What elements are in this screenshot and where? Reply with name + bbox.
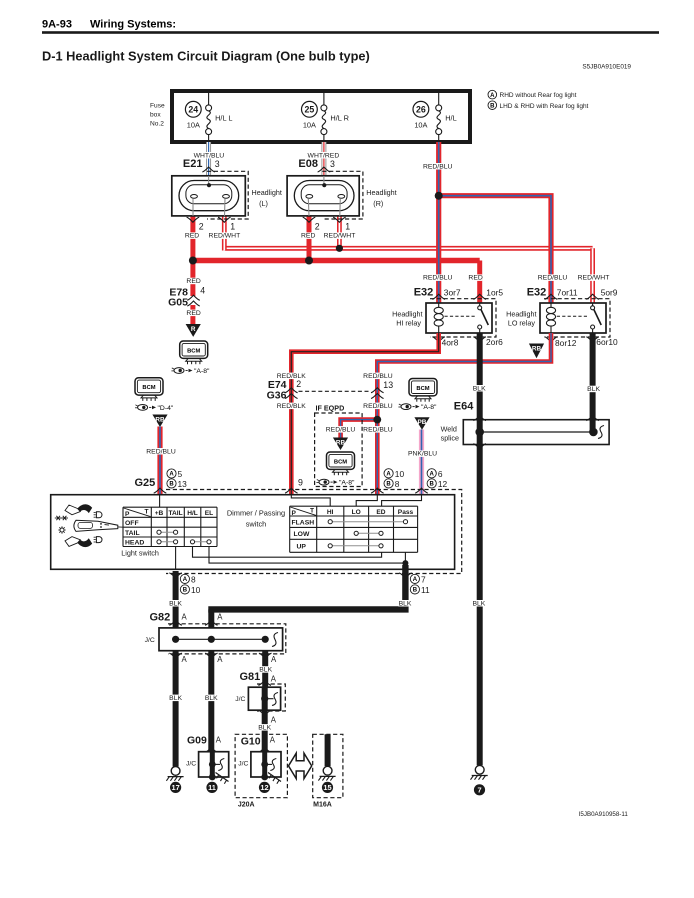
wire BLK G82 to G09: [208, 651, 214, 752]
switch entry chevron pin A6: [415, 488, 428, 493]
destination arrow PB: [414, 417, 429, 430]
M16A dashed box: [313, 734, 343, 797]
E78/G05 inline chevrons: [187, 295, 200, 306]
label RED/BLU above E74 pin13: [363, 373, 393, 380]
wire PNK/BLU from PB arrow to switch: [419, 430, 424, 495]
svg-text:7: 7: [477, 786, 481, 795]
G25 pin A7: [410, 574, 426, 584]
wire BLK right switch output to G82 bus: [208, 565, 405, 609]
E64 splice junction right: [589, 428, 598, 437]
label BLK G81 to G10: [258, 724, 272, 731]
HI relay switch: [478, 303, 489, 333]
svg-text:B: B: [430, 482, 435, 488]
junction RED/BLU branch: [373, 416, 381, 424]
svg-text:2: 2: [199, 222, 204, 232]
svg-text:A: A: [169, 472, 174, 478]
svg-text:BLK: BLK: [473, 385, 486, 392]
headlight L connector dashed box E21: [207, 171, 248, 219]
svg-text:10: 10: [395, 469, 405, 479]
svg-text:15: 15: [323, 783, 331, 792]
svg-text:26: 26: [416, 104, 426, 114]
svg-text:A: A: [430, 472, 435, 478]
svg-text:RED/BLK: RED/BLK: [277, 403, 307, 410]
IF EQPD dashed box: [315, 413, 363, 487]
svg-text:BCM: BCM: [334, 459, 347, 465]
svg-text:BLK: BLK: [399, 600, 412, 607]
svg-text:A: A: [217, 613, 223, 622]
svg-text:RED/BLU: RED/BLU: [423, 163, 453, 170]
svg-text:Light switch: Light switch: [121, 548, 159, 557]
wire RED/WHT headlight L pin1 down to bus: [222, 216, 227, 251]
fuse 26 10A H/L: [413, 101, 429, 129]
svg-text:9: 9: [298, 478, 303, 488]
G09 weld squiggle link: [212, 763, 220, 765]
wire WHT/BLU from fuse 24 to E21: [206, 142, 211, 176]
junction RED bus at headlight R pin2: [305, 257, 313, 265]
svg-text:RB: RB: [155, 416, 165, 423]
svg-text:No.2: No.2: [150, 121, 164, 128]
G25 entry chevron: [154, 488, 167, 493]
E64 splice line: [480, 431, 594, 433]
svg-text:17: 17: [171, 783, 179, 792]
svg-text:RED: RED: [301, 233, 315, 240]
label WHT/BLU: [194, 152, 225, 159]
svg-text:FLASH: FLASH: [292, 520, 315, 527]
E74/G36 chevrons pin13: [371, 388, 384, 399]
junction connector G81 box: [248, 687, 280, 710]
label BLK to G81: [259, 666, 273, 673]
E08 pin1 exit chevron: [333, 217, 346, 222]
wire RED bus joining headlight low pins: [193, 258, 480, 263]
ground 17 earth symbol: [166, 767, 183, 781]
svg-text:RED: RED: [186, 310, 200, 317]
wire EL column to ground junction: [209, 547, 405, 564]
wire WHT/RED from fuse 25 to E08: [322, 142, 327, 176]
wire RED/BLU from RB arrow to light switch G25: [157, 427, 162, 495]
G10 junction dot bottom: [261, 774, 268, 781]
svg-text:S5JB0A910E019: S5JB0A910E019: [582, 64, 631, 71]
svg-text:A: A: [271, 715, 277, 724]
svg-text:M16A: M16A: [313, 802, 332, 809]
E64 splice junction left: [475, 428, 484, 437]
svg-text:3: 3: [330, 159, 335, 169]
G81 internal wire: [262, 687, 268, 710]
svg-text:HEAD: HEAD: [125, 539, 144, 546]
fuse symbol 25: [321, 93, 327, 140]
svg-text:TAIL: TAIL: [169, 510, 183, 517]
svg-text:BLK: BLK: [205, 695, 218, 702]
E21 entry chevron: [202, 167, 215, 172]
G09 entry chevron: [205, 747, 218, 752]
wire RED/WHT bus joining headlight high pins: [224, 246, 592, 251]
headlight L component box: [172, 176, 246, 216]
headlight R component box: [287, 176, 359, 216]
svg-text:G82: G82: [150, 612, 171, 624]
svg-text:UP: UP: [297, 544, 307, 551]
svg-text:7or11: 7or11: [557, 287, 578, 297]
wire H/L column to ED column: [193, 547, 382, 558]
svg-text:BCM: BCM: [416, 386, 429, 392]
svg-text:(R): (R): [373, 199, 383, 208]
svg-text:T: T: [310, 508, 314, 515]
svg-text:switch: switch: [246, 519, 267, 528]
wire pinA6 to ED column: [382, 495, 422, 507]
wire RED/BLK from HI relay coil to E74 pin2: [291, 333, 438, 495]
legend B LHD and RHD with Rear fog light: [488, 101, 589, 110]
dimmer FLASH contacts: [328, 520, 408, 524]
G09 junction dot bottom: [209, 774, 216, 781]
label RED/BLU branch: [326, 426, 356, 433]
wire BLK left switch output to G82: [173, 571, 179, 628]
svg-text:EL: EL: [205, 510, 213, 517]
svg-text:8: 8: [395, 479, 400, 489]
headlight R feed junction: [322, 183, 326, 187]
svg-text:HI relay: HI relay: [396, 319, 421, 328]
G10 junction dot top: [261, 761, 268, 768]
headlight L feed junction: [207, 183, 211, 187]
svg-text:BLK: BLK: [258, 724, 271, 731]
svg-text:3: 3: [215, 159, 220, 169]
G82 entry chevron 1: [169, 620, 182, 625]
svg-text:Headlight: Headlight: [366, 188, 396, 197]
E74/G36 connector dashed link: [299, 390, 371, 392]
LO relay contact link: [557, 315, 589, 317]
G25 pin B11: [410, 585, 430, 595]
svg-text:5: 5: [178, 469, 183, 479]
svg-text:RED: RED: [468, 275, 482, 282]
svg-text:B: B: [413, 588, 418, 594]
G82 weld squiggle: [272, 633, 278, 647]
G25 pin A8: [180, 574, 196, 584]
svg-text:4: 4: [200, 285, 205, 295]
E74/G36 chevrons pin2: [285, 388, 298, 399]
wire BLK G82 to G81: [262, 651, 268, 688]
LO relay top chevrons: [545, 294, 599, 299]
svg-text:"A-8": "A-8": [194, 368, 210, 375]
headlight HI relay dashed connector box E32: [430, 299, 496, 337]
label RED/BLU below G36 pin13: [363, 403, 393, 410]
label RED/BLK below G36 pin2: [277, 403, 307, 410]
light switch connector dashed box G25: [166, 490, 462, 574]
svg-text:H/L: H/L: [187, 510, 198, 517]
svg-text:Headlight: Headlight: [392, 310, 422, 319]
svg-text:Headlight: Headlight: [252, 188, 282, 197]
BCM module if equipped: [327, 452, 355, 475]
wire BLK G82 bus drop: [208, 609, 214, 628]
wire RED/BLU branch to BCM if equipped: [341, 420, 378, 439]
svg-text:5or9: 5or9: [601, 287, 618, 297]
svg-text:Fuse: Fuse: [150, 103, 165, 110]
headlight R bulb inner: [301, 185, 347, 204]
label RED/BLU above HI coil: [423, 274, 453, 281]
svg-text:10A: 10A: [303, 121, 316, 130]
destination arrow R to BCM: [186, 324, 201, 337]
svg-text:IF EQPD: IF EQPD: [316, 404, 345, 413]
E08 entry chevron: [318, 167, 331, 172]
label PNK/BLU: [408, 450, 437, 457]
svg-text:P: P: [292, 510, 297, 517]
headlight R connector dashed box E08: [322, 171, 363, 219]
light switch lever pictogram: [55, 504, 123, 547]
svg-text:E21: E21: [183, 158, 203, 170]
HI relay bottom chevrons: [432, 337, 486, 342]
weld splice box E64: [463, 420, 609, 445]
svg-text:J/C: J/C: [235, 696, 245, 703]
junction connector G09 box: [199, 752, 229, 777]
G25 pin A5: [167, 469, 183, 479]
svg-text:3or7: 3or7: [444, 287, 461, 297]
BCM D-4 eye reference: [135, 405, 174, 412]
svg-text:J/C: J/C: [238, 761, 248, 768]
wire RED/BLU branch to LO relay coil: [439, 196, 551, 303]
svg-text:Weld: Weld: [441, 424, 457, 433]
E08 pin2 exit chevron: [303, 217, 316, 222]
label BLK right output: [398, 600, 412, 607]
wire RED into R arrow: [190, 305, 195, 325]
E64 exit chevron: [473, 444, 486, 449]
svg-text:BLK: BLK: [169, 695, 182, 702]
label RED above E78: [186, 278, 200, 285]
light switch table: [123, 507, 217, 546]
G09 internal wire: [210, 752, 215, 777]
svg-text:RED/BLU: RED/BLU: [363, 373, 393, 380]
svg-text:E08: E08: [298, 158, 318, 170]
svg-text:OFF: OFF: [125, 520, 139, 527]
svg-text:D-1 Headlight System Circuit D: D-1 Headlight System Circuit Diagram (On…: [42, 49, 370, 64]
BCM module right A-8: [409, 379, 437, 402]
svg-text:BCM: BCM: [187, 348, 200, 354]
headlight L bulb inner: [186, 185, 232, 204]
light switch HEAD contacts: [157, 540, 211, 544]
svg-text:J/C: J/C: [145, 637, 155, 644]
svg-text:RED/WHT: RED/WHT: [578, 275, 610, 282]
svg-text:RED/BLU: RED/BLU: [326, 426, 356, 433]
ground 15 circle: [322, 782, 333, 793]
svg-text:RHD without Rear fog light: RHD without Rear fog light: [500, 92, 577, 99]
HI relay name: [392, 310, 422, 328]
svg-text:1: 1: [345, 222, 350, 232]
wire BLK G82 to ground 17: [173, 651, 179, 767]
G82 junction dot 3: [262, 636, 269, 643]
svg-text:ED: ED: [376, 509, 385, 516]
destination arrow RB from BCM D-4: [152, 415, 167, 428]
wire BLK through E64: [477, 420, 483, 445]
svg-text:11: 11: [421, 585, 430, 595]
svg-text:1: 1: [230, 222, 235, 232]
switch entry chevron pin A10: [371, 488, 384, 493]
headlight R internal wires: [308, 176, 340, 216]
svg-text:RED/BLU: RED/BLU: [363, 403, 393, 410]
fuse symbol 24: [206, 93, 212, 140]
wire RED headlight L pin2 down to bus and E78: [190, 216, 195, 296]
svg-text:LHD & RHD with Rear fog light: LHD & RHD with Rear fog light: [500, 103, 589, 110]
junction connector G82 box: [159, 628, 283, 651]
G25 pin B12: [427, 479, 447, 489]
wire pinA10 to LO column: [356, 495, 377, 507]
G81 weld squiggle link: [265, 698, 274, 700]
wire TAIL column to BLK exit: [175, 547, 177, 570]
svg-text:RED/BLU: RED/BLU: [363, 426, 393, 433]
label RED/WHT above LO switch: [578, 274, 610, 281]
svg-text:7: 7: [421, 574, 426, 584]
svg-text:25: 25: [305, 104, 315, 114]
headlight R name: [366, 188, 396, 208]
svg-text:BCM: BCM: [142, 385, 155, 391]
svg-text:G25: G25: [135, 477, 156, 489]
svg-text:box: box: [150, 112, 161, 119]
E21 pin1 exit chevron: [218, 217, 231, 222]
M16A wire BLK: [325, 734, 331, 766]
svg-text:13: 13: [383, 380, 393, 390]
G10 weld squiggle link: [265, 763, 272, 765]
svg-text:G81: G81: [240, 671, 261, 683]
svg-text:A: A: [183, 577, 188, 583]
svg-text:T: T: [145, 509, 149, 516]
svg-text:13: 13: [178, 479, 188, 489]
svg-text:H/L R: H/L R: [330, 114, 349, 123]
label BLK to G09: [205, 695, 219, 702]
G10 entry chevron: [258, 747, 271, 752]
svg-text:LO: LO: [352, 509, 361, 516]
label BLK left output: [169, 600, 183, 607]
svg-text:H/L: H/L: [445, 114, 457, 123]
headlight L internal wires: [193, 176, 225, 216]
svg-text:B: B: [490, 103, 495, 109]
svg-text:2or6: 2or6: [486, 337, 503, 347]
LO relay bottom chevrons: [545, 337, 599, 342]
HI relay coil: [434, 303, 443, 333]
svg-text:H/L L: H/L L: [215, 114, 232, 123]
label RED under L pin2: [185, 232, 199, 239]
svg-text:BLK: BLK: [169, 600, 182, 607]
G82 internal bus: [176, 638, 266, 640]
svg-text:"A-8": "A-8": [421, 404, 437, 411]
G10 chassis ground: [268, 773, 281, 784]
wire RED/WHT vertical to LO relay switch: [590, 248, 595, 303]
svg-text:8or12: 8or12: [555, 338, 577, 348]
G81 exit chevron: [258, 710, 271, 715]
equivalence double arrow: [289, 753, 312, 778]
svg-text:RED/BLU: RED/BLU: [146, 448, 176, 455]
junction connector G81 dashed box: [257, 684, 285, 711]
svg-text:RED/WHT: RED/WHT: [324, 233, 356, 240]
headlight L name: [252, 188, 282, 208]
headlight L filament right: [223, 195, 230, 199]
HI relay top chevrons: [432, 294, 486, 299]
svg-text:A: A: [271, 655, 277, 664]
svg-text:RED/WHT: RED/WHT: [209, 233, 241, 240]
label RED/WHT under R pin1: [324, 232, 356, 239]
wire RED vertical to HI relay switch: [477, 261, 482, 304]
svg-text:E32: E32: [527, 287, 547, 299]
svg-text:BLK: BLK: [472, 600, 485, 607]
svg-text:A: A: [182, 655, 188, 664]
G81 junction dot: [261, 695, 268, 702]
BCM module top left: [180, 341, 208, 364]
svg-text:HI: HI: [327, 509, 334, 516]
HI relay contact link: [445, 315, 477, 317]
svg-text:LO relay: LO relay: [508, 319, 536, 328]
svg-text:J20A: J20A: [238, 802, 255, 809]
svg-text:2: 2: [296, 379, 301, 389]
G82 junction dot 1: [172, 636, 179, 643]
svg-text:PNK/BLU: PNK/BLU: [408, 451, 437, 458]
svg-text:6or10: 6or10: [596, 337, 618, 347]
header rule: [42, 31, 659, 34]
svg-text:24: 24: [188, 104, 198, 114]
destination arrow RB in IF EQPD: [333, 438, 348, 451]
label RED below G05: [186, 310, 200, 317]
dimmer LOW contacts: [354, 531, 383, 535]
svg-text:Wiring Systems:: Wiring Systems:: [90, 19, 176, 31]
E64 weld squiggle: [598, 426, 604, 439]
headlight L bulb housing: [179, 181, 239, 211]
svg-text:I5JB0A910958-11: I5JB0A910958-11: [579, 811, 629, 818]
svg-text:A: A: [490, 93, 495, 99]
M16A earth ground: [318, 766, 335, 780]
headlight L filament left: [191, 195, 198, 199]
svg-text:A: A: [217, 655, 223, 664]
wire BLK G81 to G10: [262, 710, 268, 752]
E64 weld splice name: [441, 424, 459, 442]
G82 exit chevron 1: [169, 653, 182, 658]
G09 junction dot top: [209, 761, 216, 768]
LO relay coil: [546, 303, 555, 333]
headlight R bulb housing: [294, 181, 354, 211]
svg-text:B: B: [386, 482, 391, 488]
junction connector G10 dashed box: [235, 734, 287, 797]
G82 exit chevron 3: [259, 653, 272, 658]
junction fuse26 branch: [435, 192, 443, 200]
junction connector G82 dashed box: [168, 624, 286, 654]
svg-text:6: 6: [438, 469, 443, 479]
destination arrow RB on LO coil wire: [529, 344, 544, 359]
svg-text:P: P: [125, 511, 130, 518]
E21 pin2 exit chevron: [187, 217, 200, 222]
fuse symbol 26: [436, 93, 442, 140]
E64 entry chevron left: [473, 416, 486, 421]
label RED/WHT under L pin1: [209, 232, 241, 239]
svg-text:11: 11: [208, 783, 216, 792]
E64 entry chevron right: [586, 416, 599, 421]
svg-text:A: A: [386, 472, 391, 478]
svg-text:RED: RED: [186, 278, 200, 285]
page header 9A-93 Wiring Systems: [42, 19, 176, 31]
svg-text:4or8: 4or8: [442, 338, 459, 348]
label RED above HI switch: [468, 274, 482, 281]
headlight R filament left: [306, 195, 313, 199]
wire BLK stub into E64 right: [590, 420, 596, 432]
LO relay name: [506, 310, 536, 328]
switch entry chevron pin 9: [285, 488, 298, 493]
label RED/BLU above G25: [146, 448, 176, 455]
svg-text:LOW: LOW: [294, 531, 310, 538]
wire BLK from LO relay switch to E64: [590, 333, 596, 420]
G25 pin A10: [384, 469, 404, 479]
svg-text:10: 10: [191, 585, 201, 595]
G25 pin B8: [384, 479, 400, 489]
headlight R filament right: [338, 195, 345, 199]
light switch TAIL contacts: [157, 530, 178, 534]
svg-text:RED/BLU: RED/BLU: [423, 275, 453, 282]
G25 pin B10: [180, 585, 200, 595]
svg-text:TAIL: TAIL: [125, 530, 140, 537]
svg-text:PB: PB: [418, 419, 427, 426]
svg-text:10A: 10A: [414, 121, 427, 130]
svg-text:RED/BLU: RED/BLU: [538, 275, 568, 282]
svg-text:"A-8": "A-8": [339, 480, 355, 487]
BCM A-8 eye reference: [171, 368, 210, 375]
